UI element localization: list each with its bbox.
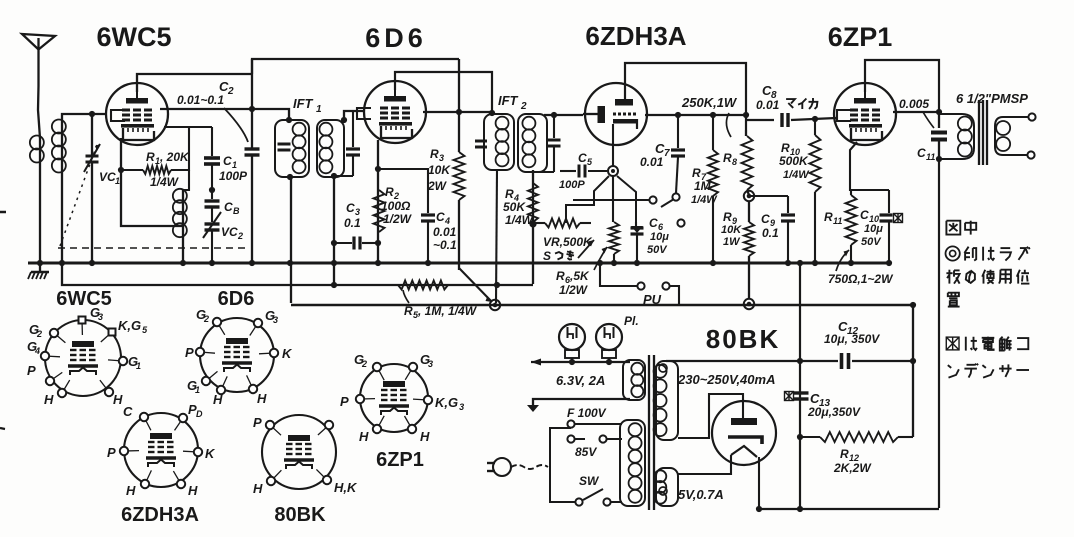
wire B+ top left [252, 59, 459, 74]
label base 6D6 [218, 288, 255, 310]
label R10 [779, 141, 810, 181]
svg-text:3: 3 [428, 359, 433, 369]
svg-text:1/4W: 1/4W [691, 194, 718, 206]
note circled marks [946, 246, 1030, 260]
label IFT1 [293, 96, 322, 115]
label R2 [381, 185, 413, 226]
svg-text:C: C [917, 146, 926, 160]
winding 6.3V [623, 360, 645, 400]
label C1 [219, 154, 248, 183]
pointer C2 [224, 108, 248, 142]
label base 6WC5 [56, 288, 112, 310]
dashed gang line [58, 247, 250, 249]
label 85V [575, 445, 597, 459]
svg-text:0.005: 0.005 [899, 97, 929, 111]
node C4 top [375, 166, 381, 172]
svg-text:PU: PU [643, 292, 662, 307]
note 置 [948, 293, 960, 307]
bus junction x637 [634, 260, 640, 266]
label R1 value [118, 150, 190, 189]
PU terminal right [662, 282, 669, 289]
bus junction x889 [886, 260, 892, 266]
resistor R4 [528, 183, 538, 222]
svg-text:0.1: 0.1 [344, 216, 361, 230]
svg-text:80BK: 80BK [274, 504, 326, 526]
node filter C12 [910, 358, 916, 364]
svg-text:,5K: ,5K [569, 269, 590, 283]
svg-text:C: C [860, 208, 869, 222]
resistor R8 [742, 130, 753, 195]
svg-text:10μ, 350V: 10μ, 350V [824, 332, 880, 346]
svg-text:IFT: IFT [293, 96, 314, 111]
node bottom 2 [797, 506, 803, 512]
winding HV [654, 361, 678, 440]
svg-text:H: H [188, 483, 198, 498]
bottom bus [759, 508, 939, 510]
label tube 80BK title [706, 324, 780, 354]
svg-text:K,G: K,G [118, 318, 141, 333]
tube 80BK [712, 401, 776, 465]
node bottom 1 [756, 506, 762, 512]
svg-text:R: R [824, 210, 833, 224]
note electrolytic 1 [946, 337, 1028, 351]
resistor R9 [744, 201, 754, 299]
svg-text:H: H [420, 429, 430, 444]
svg-text:1W: 1W [723, 236, 741, 248]
svg-text:8: 8 [732, 157, 737, 167]
primary winding [620, 420, 645, 506]
svg-text:1: 1 [115, 176, 120, 186]
label tube 6D6 title [365, 23, 427, 53]
speaker terminal bottom [1027, 151, 1034, 158]
capacitor C6 [631, 222, 644, 263]
bus junction x252 [249, 260, 255, 266]
label C9 [761, 212, 779, 240]
svg-text:~0.1: ~0.1 [433, 238, 457, 252]
resistor R12 [800, 432, 913, 442]
tap mid stub [575, 438, 585, 440]
IFT1 secondary cap [334, 111, 360, 176]
node AVC C3 [331, 282, 337, 288]
label 230V [677, 372, 775, 387]
svg-text:C: C [123, 404, 133, 419]
svg-text:K: K [282, 346, 293, 361]
svg-text:230~250V,40mA: 230~250V,40mA [677, 372, 775, 387]
svg-text:50V: 50V [861, 236, 882, 248]
label tube 6ZP1 title [828, 22, 893, 52]
svg-text:4: 4 [34, 346, 40, 356]
svg-text:H: H [113, 392, 123, 407]
node 6D6 plate x459 [456, 109, 462, 115]
IFT2 secondary cap [533, 115, 561, 172]
svg-text:B: B [233, 206, 240, 216]
capacitor C7 [671, 115, 685, 193]
wire HV top [666, 360, 800, 362]
bus junction x40 [37, 260, 43, 266]
label CB [224, 200, 240, 216]
label base 6ZP1 [376, 449, 424, 471]
heater wire [531, 359, 630, 366]
node grid junction [743, 112, 749, 118]
node B+ ground [797, 260, 803, 266]
node lamp1 [569, 359, 575, 365]
bus junction x334 [331, 260, 337, 266]
svg-text:6D6: 6D6 [365, 23, 427, 53]
node IFT2 sec cap [551, 112, 557, 118]
svg-text:R: R [840, 447, 849, 461]
label PMSP [956, 91, 1028, 106]
transformer core [649, 355, 654, 510]
label R11 [824, 210, 842, 226]
svg-text:0.01: 0.01 [640, 155, 664, 169]
bus junction x378 [375, 260, 381, 266]
svg-text:P: P [107, 445, 116, 460]
label C5 [559, 151, 593, 191]
svg-text:R: R [505, 187, 514, 201]
svg-text:10μ: 10μ [650, 231, 669, 243]
wire 6ZP1 plate [893, 111, 939, 113]
node plate-C2 [249, 106, 255, 112]
pointer 0.005 [923, 112, 934, 128]
plug [487, 458, 548, 476]
capacitor C3 [334, 237, 378, 250]
bus junction x62 [59, 260, 65, 266]
svg-text:10μ: 10μ [864, 223, 883, 235]
label tube 6ZDH3A title [585, 21, 686, 51]
svg-text:100Ω: 100Ω [381, 199, 411, 213]
svg-text:R: R [556, 269, 565, 283]
bus junction x851 [848, 260, 854, 266]
label R9 [721, 210, 742, 248]
svg-text:H: H [213, 392, 223, 407]
svg-text:1M: 1M [694, 179, 712, 193]
wire IFT1 sec to 6D6 grid [344, 111, 365, 120]
tap terminal mid [567, 435, 574, 442]
label R3 [427, 147, 451, 193]
label R6 [556, 269, 590, 297]
wire 6ZDH3A left [583, 113, 598, 115]
label F100V [567, 406, 607, 420]
label C10 [860, 208, 883, 248]
label C2 [177, 79, 234, 107]
wire det to switch [573, 199, 649, 201]
node lug detector [608, 166, 618, 176]
resistor R1 [121, 127, 212, 174]
svg-text:6ZDH3A: 6ZDH3A [121, 504, 199, 526]
label 5V [678, 487, 724, 502]
tube 6WC5 [106, 83, 168, 145]
wire IFT2 sec top [544, 114, 583, 116]
node IFT1 bot [287, 174, 293, 180]
svg-text:K,G: K,G [435, 395, 458, 410]
node lug B1 [744, 191, 754, 201]
svg-text:2: 2 [227, 86, 234, 97]
pointer 750 [836, 250, 849, 271]
wire det left fan [566, 176, 609, 223]
svg-text:2: 2 [203, 314, 209, 324]
label IFT2 [498, 93, 527, 112]
node plate C7 [675, 112, 681, 118]
bus junction x614 [611, 260, 617, 266]
svg-text:1: 1 [195, 385, 200, 395]
primary left wire [550, 428, 575, 502]
svg-text:3: 3 [459, 402, 464, 412]
tap terminal 100V [567, 420, 574, 427]
svg-text:2: 2 [36, 329, 42, 339]
svg-text:6D6: 6D6 [218, 288, 255, 310]
switch contact a [649, 196, 656, 203]
pointer R5 [403, 290, 409, 303]
tube base 6ZP1 [340, 352, 464, 444]
label C7 [640, 141, 670, 169]
switch lever 2 [583, 489, 603, 500]
svg-text:750Ω,1~2W: 750Ω,1~2W [828, 272, 894, 286]
wire speaker vertical [938, 159, 940, 508]
svg-text:6ZDH3A: 6ZDH3A [585, 21, 686, 51]
wire 6WC5 plate [160, 109, 289, 121]
svg-text:100P: 100P [559, 179, 585, 191]
label C4 [433, 210, 457, 252]
svg-text:2: 2 [361, 359, 367, 369]
label tube 6WC5 title [96, 22, 171, 52]
wire det right fan [617, 176, 636, 222]
svg-text:1/4W: 1/4W [150, 175, 180, 189]
svg-text:0.01: 0.01 [433, 225, 457, 239]
wire 6WC5 top cap [137, 74, 252, 92]
wire 80BK fil right [758, 457, 760, 509]
svg-text:6ZP1: 6ZP1 [828, 22, 893, 52]
resistor R2 [374, 190, 385, 232]
tube 6ZDH3A [585, 83, 647, 145]
switch lever [661, 199, 674, 207]
svg-text:1: 1 [316, 104, 322, 115]
tube base 80BK [253, 415, 358, 496]
svg-text:6WC5: 6WC5 [56, 288, 112, 310]
label C6 [647, 216, 669, 256]
PU terminal left [637, 282, 644, 289]
bus junction x600 [597, 260, 603, 266]
svg-text:P: P [340, 394, 349, 409]
diagonal R3 feed [459, 268, 492, 302]
left margin tick [0, 211, 6, 214]
heater return [527, 399, 630, 412]
IFT2 primary [475, 114, 514, 170]
winding 5V [654, 468, 678, 506]
svg-text:R: R [430, 147, 439, 161]
B+ rail [799, 263, 801, 509]
IFT1 primary [275, 120, 309, 177]
wire 6ZDH3A cathode [612, 124, 614, 166]
svg-text:H,K: H,K [334, 480, 358, 495]
svg-text:2K,2W: 2K,2W [833, 461, 872, 475]
svg-text:11: 11 [926, 152, 935, 162]
svg-text:0.01: 0.01 [756, 98, 780, 112]
svg-text:1: 1 [136, 361, 141, 371]
svg-text:80BK: 80BK [706, 324, 780, 354]
svg-text:85V: 85V [575, 445, 597, 459]
switch to winding [611, 501, 622, 503]
label Pl [624, 314, 639, 328]
svg-text:R: R [723, 210, 732, 224]
label 750ohm [828, 272, 894, 286]
capacitor C11 [931, 112, 947, 160]
svg-text:R: R [146, 150, 155, 164]
IFT1 secondary [317, 120, 344, 177]
label C3 [344, 201, 361, 230]
node C3 right [375, 240, 381, 246]
VR wiper arrow [578, 240, 594, 258]
resistor R5 [398, 281, 448, 290]
svg-text:SW: SW [579, 474, 600, 488]
IFT2 secondary [518, 114, 547, 172]
node lug B2 [744, 299, 754, 309]
svg-text:S: S [543, 249, 551, 263]
node lamp2 [606, 359, 612, 365]
wire 6D6 cathode [377, 140, 379, 263]
wire 6ZP1 cathode [850, 142, 889, 190]
svg-text:5V,0.7A: 5V,0.7A [678, 487, 724, 502]
tap terminal 85V [599, 435, 606, 442]
capacitor C2 [245, 59, 260, 263]
pilot lamp 2 [596, 324, 622, 362]
svg-text:2: 2 [237, 231, 243, 241]
svg-text:7: 7 [664, 148, 670, 159]
svg-text:P: P [185, 345, 194, 360]
svg-text:6.3V, 2A: 6.3V, 2A [556, 373, 605, 388]
svg-text:D: D [196, 409, 203, 419]
label PU [643, 292, 662, 307]
node lug A [490, 300, 500, 310]
switch contact b [672, 193, 679, 200]
svg-text:10K: 10K [721, 224, 742, 236]
antenna [22, 34, 55, 138]
resistor R7 [708, 115, 718, 263]
svg-text:Pl.: Pl. [624, 314, 639, 328]
resistor R3 [454, 59, 465, 270]
svg-text:10K: 10K [428, 163, 451, 177]
node 6ZP1 plate [936, 109, 942, 115]
primary tap 100V [575, 423, 622, 425]
wire PU [600, 263, 637, 286]
note board usage [946, 270, 1029, 284]
node filter top [910, 302, 916, 308]
svg-text:6 1/2"PMSP: 6 1/2"PMSP [956, 91, 1028, 106]
node plate R7 [710, 112, 716, 118]
note electrolytic 2 [948, 364, 1029, 378]
capacitor C4 [378, 169, 435, 263]
svg-text:50V: 50V [647, 244, 668, 256]
left margin tick 2 [0, 428, 5, 429]
svg-text:3: 3 [439, 153, 444, 163]
svg-text:0.01~0.1: 0.01~0.1 [177, 93, 224, 107]
svg-text:2W: 2W [427, 179, 448, 193]
capacitor C1 [204, 127, 220, 199]
resistor R11 [846, 190, 857, 263]
node AVC join [494, 282, 500, 288]
capacitor C12 [800, 353, 913, 369]
pointer R8 [726, 113, 731, 137]
svg-text:F 100V: F 100V [567, 406, 607, 420]
label C12 [824, 319, 880, 346]
capacitor CB [205, 187, 220, 222]
primary tap 85V [607, 438, 622, 440]
bus junction x428 [425, 260, 431, 266]
svg-text:C: C [649, 216, 658, 230]
node R12 left [797, 434, 803, 440]
antenna coil secondary [52, 120, 66, 264]
VR 500K [533, 219, 591, 228]
bus junction x788 [785, 260, 791, 266]
svg-text:H: H [253, 481, 263, 496]
tube base 6ZDH3A [107, 402, 216, 498]
label R5 [404, 304, 478, 320]
ground symbol [28, 263, 49, 279]
svg-text:VC: VC [99, 170, 116, 184]
label R12 [833, 447, 872, 475]
svg-text:1/2W: 1/2W [559, 283, 589, 297]
node R4 bottom [529, 220, 536, 227]
node IFT1 sec bot [331, 173, 337, 179]
dashed gang diagonal [60, 142, 98, 246]
label C13 [807, 391, 861, 419]
node IFT2 top [489, 110, 495, 116]
note 図中 [946, 221, 976, 235]
svg-text:250K,1W: 250K,1W [681, 95, 738, 110]
label VC2 [221, 225, 243, 241]
wire filter right [912, 305, 914, 437]
ground bus [28, 262, 889, 265]
svg-text:IFT: IFT [498, 93, 519, 108]
svg-text:50K: 50K [503, 200, 526, 214]
label C8 [756, 83, 817, 112]
svg-text:K: K [205, 446, 216, 461]
wire grid 6WC5 [62, 114, 107, 122]
capacitor C10 [880, 190, 903, 263]
label VC1 [99, 170, 120, 186]
wire 6WC5 cathode [121, 138, 183, 226]
svg-text:0.1: 0.1 [762, 226, 779, 240]
svg-text:1/4W: 1/4W [783, 169, 810, 181]
capacitor C8 [746, 113, 836, 127]
wire 6D6 top cap [395, 72, 492, 113]
wire PU right [670, 286, 679, 305]
svg-text:VR,500K: VR,500K [543, 235, 593, 249]
tube 6ZP1 [834, 83, 896, 145]
node C8 R10 [812, 116, 818, 122]
label 250K [681, 95, 738, 110]
svg-text:3: 3 [273, 315, 278, 325]
label 0.005 [899, 97, 929, 111]
svg-text:R: R [692, 166, 701, 180]
label SW [579, 474, 600, 488]
wire IFT1 sec bottom [333, 176, 335, 285]
label C11 [917, 146, 935, 162]
AVC bus [62, 263, 533, 285]
svg-text:1/2W: 1/2W [383, 212, 413, 226]
wire IFT2 primary return [496, 170, 497, 303]
wire R4 column [532, 170, 534, 284]
capacitor C5 [560, 165, 607, 178]
svg-text:3: 3 [98, 312, 103, 322]
svg-text:H: H [44, 392, 54, 407]
tube base 6D6 [185, 307, 293, 407]
svg-text:H: H [257, 391, 267, 406]
svg-text:H: H [359, 429, 369, 444]
label R7 [691, 166, 718, 206]
svg-text:C: C [223, 154, 232, 168]
svg-text:2: 2 [520, 101, 527, 112]
wire 80BK fil left [678, 455, 731, 474]
